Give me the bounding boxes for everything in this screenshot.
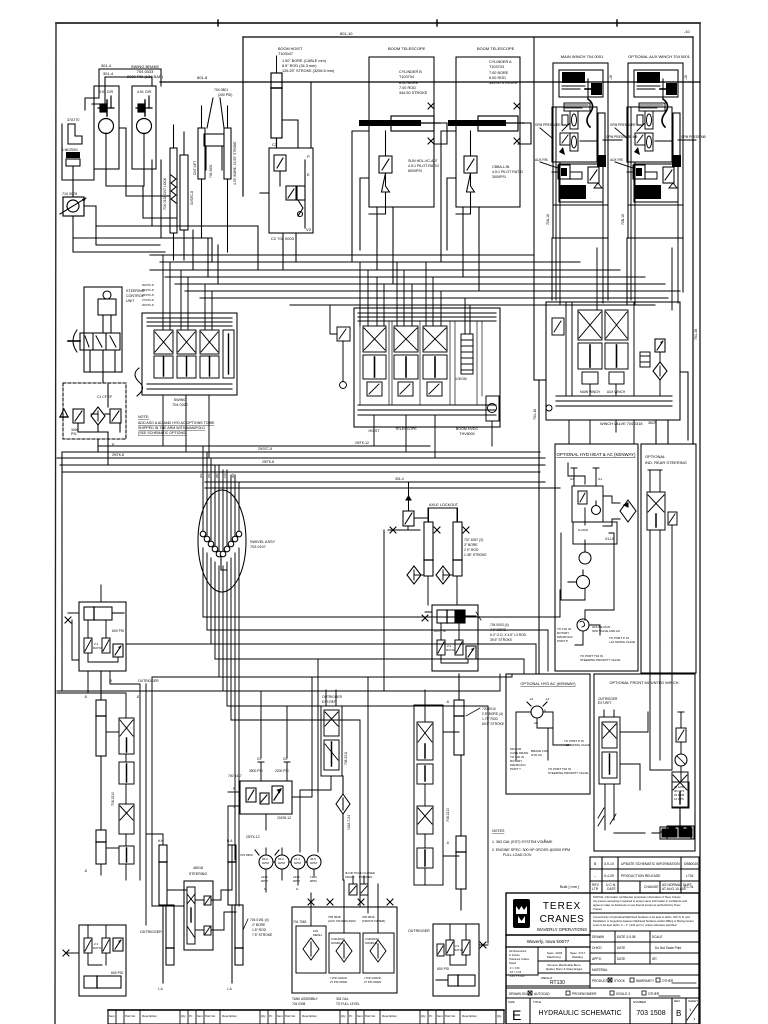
pump group 704 0360: [255, 850, 321, 869]
outrigger BR cylinder: [436, 975, 475, 986]
svg-text:TO FULL LEVEL: TO FULL LEVEL: [336, 1002, 360, 1006]
swing brake actuator 1: [98, 96, 114, 116]
front winch gauge box: [672, 782, 689, 808]
svg-text:SCALE: SCALE: [652, 935, 662, 939]
quick disconnects tank: [308, 899, 314, 905]
svg-text:+12 SWING VALVE: +12 SWING VALVE: [609, 640, 635, 644]
label bus ids: [112, 441, 404, 481]
svg-text:704 0360: 704 0360: [240, 853, 253, 857]
heat/ac fan circle: [568, 570, 590, 589]
svg-text:28/37C-8: 28/37C-8: [142, 293, 154, 297]
svg-text:700 0447: 700 0447: [228, 774, 242, 778]
svg-text:WARRANTY: WARRANTY: [636, 979, 655, 983]
svg-text:30/37C-8: 30/37C-8: [142, 283, 154, 287]
outrigger rear-right box: [433, 924, 479, 996]
main valve bank 704 0322 outer: [354, 308, 500, 427]
svg-text:AUX P/B: AUX P/B: [610, 158, 623, 162]
wire lockout bottoms: [414, 575, 457, 605]
svg-text:2. ENGINE SPEC: 300 HP GROSS: 2. ENGINE SPEC: 300 HP GROSS @2000 RPM: [492, 848, 570, 852]
wire main bank feeds from top buses: [360, 262, 470, 334]
swing motor 1: [99, 119, 114, 134]
svg-text:GPM PRESSURE: GPM PRESSURE: [610, 123, 636, 127]
svg-text:704 7063: 704 7063: [293, 920, 307, 924]
svg-text:Pc: Pc: [269, 1014, 273, 1018]
svg-text:NOTICE: Information confidenti: NOTICE: Information confidential, propri…: [593, 895, 681, 899]
wire heat/ac internal: [561, 463, 614, 620]
quick disconnects lockout: [390, 527, 396, 533]
wire long return runs to tank (left): [152, 160, 258, 270]
svg-text:C2: C2: [272, 142, 278, 147]
flexible hose symbol: [135, 368, 143, 396]
svg-text:MATERIAL: MATERIAL: [592, 968, 608, 972]
svg-text:CBBA-LJN: CBBA-LJN: [492, 165, 510, 169]
wire rear steering drops below box: [650, 640, 672, 770]
svg-text:7.00 ROD: 7.00 ROD: [399, 86, 416, 90]
swing bank spool section 1: [154, 330, 173, 378]
wire telescope A drops: [441, 123, 531, 290]
main bank inlet compensator stack: [461, 334, 473, 374]
sheet border frame right: [699, 23, 701, 1024]
svg-text:29C: 29C: [207, 473, 211, 478]
svg-text:69.5" STROKE: 69.5" STROKE: [482, 722, 505, 726]
svg-text:28C: 28C: [215, 473, 219, 478]
svg-text:SWIVEL ASSY: SWIVEL ASSY: [250, 540, 276, 544]
label 704 0191 cyl spec: [243, 918, 273, 937]
holding valve CBBA-LJN: [464, 131, 477, 192]
swing bank spool section 3: [200, 330, 219, 378]
svg-text:NOMINAL: NOMINAL: [331, 941, 344, 945]
svg-text:BOOM HOIST: BOOM HOIST: [278, 47, 303, 51]
svg-text:704 0801: 704 0801: [209, 164, 213, 178]
svg-text:304 GAL: 304 GAL: [336, 997, 349, 1001]
node 801-10 top distribution line: [243, 37, 693, 444]
svg-text:EXT-RET: EXT-RET: [598, 701, 612, 705]
svg-text:6.0" O.D. X 4.5" L3 ROD: 6.0" O.D. X 4.5" L3 ROD: [490, 633, 527, 637]
svg-text:GPM: GPM: [310, 861, 317, 865]
notice paragraph: [593, 895, 687, 911]
heat/ac gauge stems: [571, 468, 599, 486]
kenway S-circle: [577, 619, 589, 631]
svg-text:704 0191 (4): 704 0191 (4): [250, 918, 269, 922]
svg-text:Tolerance Unless: Tolerance Unless: [509, 957, 530, 961]
front steering valve box: [184, 881, 213, 950]
svg-text:Pc: Pc: [349, 1014, 353, 1018]
swivel contact circles: [200, 531, 242, 557]
parts list header text: [109, 1014, 502, 1018]
svg-text:29/37C-8: 29/37C-8: [258, 447, 272, 451]
svg-text:CRACK: CRACK: [345, 875, 355, 879]
svg-text:DATE: DATE: [617, 957, 625, 961]
svg-text:WAVERLY OPERATIONS: WAVERLY OPERATIONS: [537, 927, 587, 932]
spec cells: [547, 951, 586, 959]
svg-text:301-4: 301-4: [395, 477, 404, 481]
main bank spool section hoist: [363, 326, 386, 396]
optional hyd heat & ac box: [555, 444, 638, 671]
svg-text:27 PSI OPEN: 27 PSI OPEN: [364, 980, 381, 984]
horizontal bus wires mid page: [150, 255, 680, 305]
svg-text:G1-L6: G1-L6: [605, 537, 614, 541]
wire pump suctions: [266, 848, 314, 892]
svg-text:SPD VALVE AND AC: SPD VALVE AND AC: [592, 629, 621, 633]
svg-text:DRAWN: DRAWN: [592, 935, 605, 939]
outrigger FR pilot boxes: [437, 640, 463, 655]
svg-text:600 PSI: 600 PSI: [437, 967, 449, 971]
svg-text:SHIPPED IN THE ARM WITH MANIFO: SHIPPED IN THE ARM WITH MANIFOLD: [138, 426, 205, 430]
note text (underlined): [138, 415, 215, 435]
boom hoist holding manifold 704 0003: [260, 148, 313, 233]
svg-text:4.5:1 PILOT RATIO: 4.5:1 PILOT RATIO: [408, 164, 439, 168]
svg-text:-8: -8: [109, 679, 112, 683]
svg-text:72B-16: 72B-16: [621, 214, 625, 225]
wire center column links: [425, 690, 459, 885]
svg-text:Pc: Pc: [189, 1014, 193, 1018]
svg-text:720 0010: 720 0010: [482, 707, 496, 711]
check valve diamond 1018-7-24: [336, 776, 350, 880]
svg-text:600 PSI: 600 PSI: [111, 971, 123, 975]
svg-text:OPTIONAL FRONT MOUNTED WINCH: OPTIONAL FRONT MOUNTED WINCH: [610, 680, 679, 685]
wire outrigger BL links: [66, 925, 106, 965]
wire main bank bottom drops: [374, 415, 492, 458]
wire BR links: [450, 924, 488, 965]
winch bank spool main: [578, 310, 602, 384]
wire swing return: [62, 124, 170, 197]
svg-text:SIZE: SIZE: [508, 1000, 515, 1004]
svg-text:-8: -8: [136, 695, 139, 699]
svg-text:OUTRIGGER: OUTRIGGER: [322, 695, 343, 699]
svg-text:(SEE SCHEMATIC OPTIONS): (SEE SCHEMATIC OPTIONS): [138, 431, 187, 435]
air breather filter (dark): [66, 152, 80, 158]
svg-text:-16: -16: [609, 75, 613, 80]
swivel assembly ellipse: [198, 490, 246, 592]
svg-text:4.91 CIR: 4.91 CIR: [137, 90, 152, 94]
right riser cylinder upper: [454, 674, 464, 755]
svg-text:29/TK-8: 29/TK-8: [262, 460, 274, 464]
winch bank relief: [655, 339, 665, 352]
svg-text:4.5:1 PILOT RATIO: 4.5:1 PILOT RATIO: [492, 170, 523, 174]
main winch U10: [552, 63, 608, 310]
heat/ac pump circle: [592, 501, 601, 515]
wire winch pressure taps: [540, 128, 696, 168]
svg-text:29/TK-12: 29/TK-12: [355, 441, 369, 445]
title block main dividers: [506, 893, 699, 998]
svg-text:CHK'D: CHK'D: [592, 946, 602, 950]
wire steering connections: [146, 834, 236, 930]
svg-text:E: E: [512, 1007, 521, 1023]
heat/ac relief valve: [578, 491, 587, 504]
quick disconnect BR: [480, 942, 486, 948]
wire main bank inner verticals: [360, 321, 482, 405]
svg-text:--: --: [594, 874, 596, 878]
svg-text:DATE 3-9-08: DATE 3-9-08: [617, 935, 636, 939]
svg-text:Item: Item: [437, 1014, 443, 1018]
boom telescope box A: [456, 57, 520, 207]
wire left column links: [57, 671, 152, 925]
filter relief valve: [60, 409, 84, 423]
tolerance cell: [509, 949, 530, 978]
optional front mounted winch box: [594, 674, 695, 851]
front winch bottom actuator (dark): [614, 808, 691, 839]
svg-text:T103047: T103047: [278, 52, 293, 56]
svg-text:REV: REV: [674, 999, 680, 1003]
waverly row: [506, 934, 590, 936]
svg-text:8.00 BORE: 8.00 BORE: [399, 81, 419, 85]
label winch press: [535, 123, 706, 162]
outrigger TL cylinder: [84, 607, 124, 620]
svg-text:335.00 STROKE: 335.00 STROKE: [489, 81, 518, 85]
label kenway routing: [557, 625, 635, 662]
telescope cylinder B: [359, 116, 440, 131]
svg-text:3-9-10: 3-9-10: [604, 862, 614, 866]
svg-text:TEREX: TEREX: [543, 901, 581, 912]
svg-text:GPM: GPM: [294, 861, 301, 865]
steering valve spool: [187, 887, 195, 944]
weight row divider: [506, 985, 590, 987]
hyd ac pump circle: [527, 702, 547, 718]
svg-text:UNIT: UNIT: [126, 299, 135, 303]
left outrigger riser cylinder upper: [96, 671, 106, 756]
svg-text:1. 363 GAL (EST) SYSTEM VOLUM: 1. 363 GAL (EST) SYSTEM VOLUME: [492, 840, 553, 844]
boom hoist cylinder: [271, 56, 282, 148]
svg-text:703 1508: 703 1508: [636, 1010, 665, 1017]
svg-text:27C: 27C: [223, 473, 227, 478]
outrigger TL relief: [113, 644, 123, 657]
swing motor 2: [137, 119, 152, 134]
svg-text:708 2210: 708 2210: [111, 792, 115, 806]
wire leader to FR spec: [476, 612, 481, 620]
wire stub above TL outrigger box: [100, 585, 102, 602]
wire right side drops from ladder: [488, 590, 560, 943]
wire hyd ac internals: [516, 712, 570, 760]
svg-text:CNT LIFT: CNT LIFT: [193, 161, 197, 175]
svg-text:Item: Item: [197, 1014, 203, 1018]
swing bank end section: [223, 330, 234, 378]
svg-text:2.0" ROD: 2.0" ROD: [464, 548, 479, 552]
quick disconnect X marks cyl B: [428, 103, 434, 109]
svg-text:TANK ASSEMBLY: TANK ASSEMBLY: [292, 997, 319, 1001]
svg-text:STOCK: STOCK: [614, 979, 626, 983]
svg-text:OPTIONAL HYD HEAT & AC (KENWAY: OPTIONAL HYD HEAT & AC (KENWAY): [557, 452, 636, 457]
svg-text:1.5" ROD: 1.5" ROD: [252, 928, 267, 932]
svg-text:HYD AC: HYD AC: [531, 753, 543, 757]
heat/ac motor circle: [579, 545, 591, 564]
svg-text:301-4: 301-4: [101, 63, 112, 68]
svg-text:AUX P/B: AUX P/B: [535, 158, 548, 162]
wire counterbalance drops: [73, 179, 228, 284]
label pilot manifold: [228, 757, 291, 839]
svg-text:2.5" BORE (4): 2.5" BORE (4): [482, 712, 503, 716]
outrigger BL relief: [113, 938, 123, 951]
svg-text:Welding: Welding: [572, 955, 583, 959]
svg-text:OUTRIGGER: OUTRIGGER: [140, 930, 162, 934]
swivel center drain: [221, 557, 227, 570]
svg-text:CHANGE: CHANGE: [644, 885, 659, 889]
outrigger rear box (bottom-left): [79, 925, 126, 996]
wire FR links: [425, 612, 468, 663]
svg-text:704 0318 CNT LOCK: 704 0318 CNT LOCK: [163, 177, 167, 210]
svg-text:-8: -8: [84, 695, 87, 699]
svg-text:.XX = ±.03: .XX = ±.03: [509, 970, 522, 974]
svg-text:30C: 30C: [199, 473, 203, 478]
wire pilot manifold gauge stems: [228, 691, 312, 830]
counterbalance lock valve 704 0318 (accumulator style): [170, 125, 177, 233]
svg-text:T103704: T103704: [399, 75, 414, 79]
lockout cylinder 1: [424, 508, 433, 576]
winch bank spool aux: [605, 310, 628, 384]
steer cylinder left front: [159, 845, 174, 983]
wire rear steering internals: [648, 470, 672, 640]
svg-text:STEERING: STEERING: [189, 872, 208, 876]
svg-text:P: P: [307, 154, 310, 159]
svg-text:NOMINAL: NOMINAL: [365, 941, 378, 945]
svg-text:5-4-09: 5-4-09: [604, 874, 614, 878]
svg-text:DATE: DATE: [617, 946, 625, 950]
svg-text:CYLINDER A: CYLINDER A: [489, 60, 512, 64]
svg-text:GOULD 3: GOULD 3: [616, 992, 630, 996]
heat exchanger diamond: [603, 496, 636, 526]
outrigger BL pilot boxes: [84, 938, 110, 953]
lockout cylinder 2: [453, 508, 462, 576]
svg-text:Part No.: Part No.: [445, 1014, 456, 1018]
svg-text:OPTIONAL HYD AC (KENWAY): OPTIONAL HYD AC (KENWAY): [520, 681, 576, 686]
steering control unit: [84, 287, 122, 372]
svg-text:Spatter, Burrs & Sharp Edges: Spatter, Burrs & Sharp Edges: [546, 967, 583, 971]
svg-text:46018: 46018: [193, 866, 203, 870]
svg-text:MESH: MESH: [313, 933, 322, 937]
parts list strip: [108, 1010, 504, 1024]
svg-text:Bulk [ mm ]: Bulk [ mm ]: [560, 885, 579, 889]
telescope cylinder A: [448, 116, 524, 131]
svg-text:600 PSI: 600 PSI: [112, 629, 124, 633]
svg-text:72A-16: 72A-16: [546, 214, 550, 225]
svg-text:27/37C-8: 27/37C-8: [142, 298, 154, 302]
svg-text:710 0078: 710 0078: [62, 192, 77, 196]
wire 701-16 long riser: [534, 255, 688, 674]
label right riser spec: [466, 707, 505, 726]
svg-text:4.25" BORE, 15.00" STROKE: 4.25" BORE, 15.00" STROKE: [233, 141, 237, 185]
outrigger BR relief: [437, 944, 444, 956]
svg-text:B: B: [676, 1009, 681, 1018]
svg-text:Lines to be kept within .0 ~ 1: Lines to be kept within .0 ~ 1° (.032 pe…: [593, 923, 677, 927]
steering valve ports: [204, 896, 211, 935]
svg-text:Description: Description: [222, 1014, 237, 1018]
steer cylinder right front: [228, 845, 243, 983]
quick disconnect X marks cyl A: [514, 103, 520, 109]
svg-text:-12: -12: [529, 697, 534, 701]
svg-text:STEERING PRIORITY VALVE: STEERING PRIORITY VALVE: [580, 658, 620, 662]
filter element F1: [91, 407, 105, 425]
wire tank inlets with X: [311, 880, 378, 933]
svg-text:344.50 STROKE: 344.50 STROKE: [399, 91, 428, 95]
label tank assy: [292, 997, 360, 1006]
svg-text:7.00 BORE: 7.00 BORE: [489, 71, 509, 75]
wire lower horizontal bus group: [57, 439, 560, 691]
quick disconnect TL: [65, 617, 71, 623]
boom telescope box B: [369, 57, 434, 207]
winch bank gauge box: [640, 352, 650, 367]
svg-text:30/37C-8: 30/37C-8: [190, 191, 194, 205]
wire winch bank outlet stubs: [569, 420, 634, 444]
svg-text:-16: -16: [684, 75, 688, 80]
svg-text:Cranes.: Cranes.: [593, 907, 603, 911]
svg-text:Qty: Qty: [341, 1014, 346, 1018]
front winch motor circle: [675, 754, 687, 766]
svg-text:PRODUCT:: PRODUCT:: [592, 979, 608, 983]
wire bottom-left long runs: [57, 659, 318, 852]
svg-text:704 0003 (4): 704 0003 (4): [490, 623, 509, 627]
svg-text:Qty: Qty: [421, 1014, 426, 1018]
svg-text:WT.: WT.: [652, 957, 658, 961]
svg-text:WINCH VALVE 704 0318: WINCH VALVE 704 0318: [600, 422, 643, 426]
label steering control unit: [126, 289, 145, 303]
winch valve bank 704 0318: [546, 302, 680, 420]
optional aux winch U11: [627, 63, 683, 310]
tank breather valves: [349, 876, 368, 895]
svg-text:8.5" ROD (34.3 mm): 8.5" ROD (34.3 mm): [282, 64, 317, 68]
svg-text:MAIN WINCH 704 0001: MAIN WINCH 704 0001: [561, 54, 604, 59]
svg-text:Pc: Pc: [429, 1014, 433, 1018]
svg-text:Description: Description: [462, 1014, 477, 1018]
wire pump outlet runs: [73, 186, 258, 238]
svg-text:G-MAN: G-MAN: [578, 528, 588, 532]
svg-text:1018-7-24: 1018-7-24: [347, 815, 351, 830]
wire ext-ret feeds: [300, 677, 368, 913]
svg-text:708 2211: 708 2211: [344, 751, 348, 765]
svg-text:-12: -12: [545, 697, 550, 701]
label terex cranes: [537, 901, 587, 932]
svg-text:3" BORE: 3" BORE: [464, 543, 478, 547]
svg-text:EXT-RET: EXT-RET: [322, 700, 336, 704]
svg-text:1 MICRON: 1 MICRON: [62, 148, 78, 152]
tank assembly box: [292, 907, 397, 993]
label -8 markers center: [446, 700, 546, 845]
svg-text:701-16: 701-16: [694, 329, 698, 340]
svg-text:704 0801: 704 0801: [214, 88, 228, 92]
svg-text:Part No.: Part No.: [285, 1014, 296, 1018]
svg-text:AXLE LOCKOUT: AXLE LOCKOUT: [429, 503, 459, 507]
svg-text:1.50" BORE (CABLE mm): 1.50" BORE (CABLE mm): [282, 59, 327, 63]
svg-text:301-4: 301-4: [103, 71, 114, 76]
svg-text:OUTRIGGER: OUTRIGGER: [408, 929, 430, 933]
product row: [592, 978, 696, 983]
svg-text:29/TK-8: 29/TK-8: [112, 453, 124, 457]
terex logo: [513, 899, 530, 928]
svg-text:All Dimensions: All Dimensions: [509, 949, 527, 953]
center outrigger valve column 708 2210: [414, 705, 443, 885]
svg-text:3000PSI: 3000PSI: [492, 175, 506, 179]
svg-text:26/37C-8: 26/37C-8: [142, 303, 154, 307]
tank filter 3 (front): [363, 933, 394, 973]
svg-text:Qty: Qty: [497, 1014, 502, 1018]
svg-text:HYDRAULIC SCHEMATIC: HYDRAULIC SCHEMATIC: [538, 1010, 621, 1017]
svg-text:G1: G1: [598, 477, 602, 481]
svg-text:704 0308: 704 0308: [292, 1002, 306, 1006]
svg-text:703 0107: 703 0107: [250, 545, 266, 549]
svg-text:ADD ASO A AC AND HYD AC OPTION: ADD ASO A AC AND HYD AC OPTIONS TO BE: [138, 421, 215, 425]
svg-text:APP'D: APP'D: [592, 957, 602, 961]
svg-text:V2: V2: [306, 227, 312, 232]
diagonal drain hatches: [598, 808, 616, 826]
outrigger BR pilot boxes: [446, 940, 470, 955]
svg-text:SHEET: SHEET: [688, 999, 698, 1003]
main bank end motor: [486, 396, 499, 421]
drawn/date/scale rows: [590, 931, 699, 975]
svg-text:OPTIONAL: OPTIONAL: [645, 454, 666, 459]
drawn-on row: [509, 991, 680, 996]
main bank spool section telescope: [394, 326, 418, 396]
svg-text:CRANES: CRANES: [540, 914, 585, 925]
svg-text:27 PSI OPEN: 27 PSI OPEN: [330, 980, 347, 984]
outrigger FR cylinder: [437, 610, 476, 623]
